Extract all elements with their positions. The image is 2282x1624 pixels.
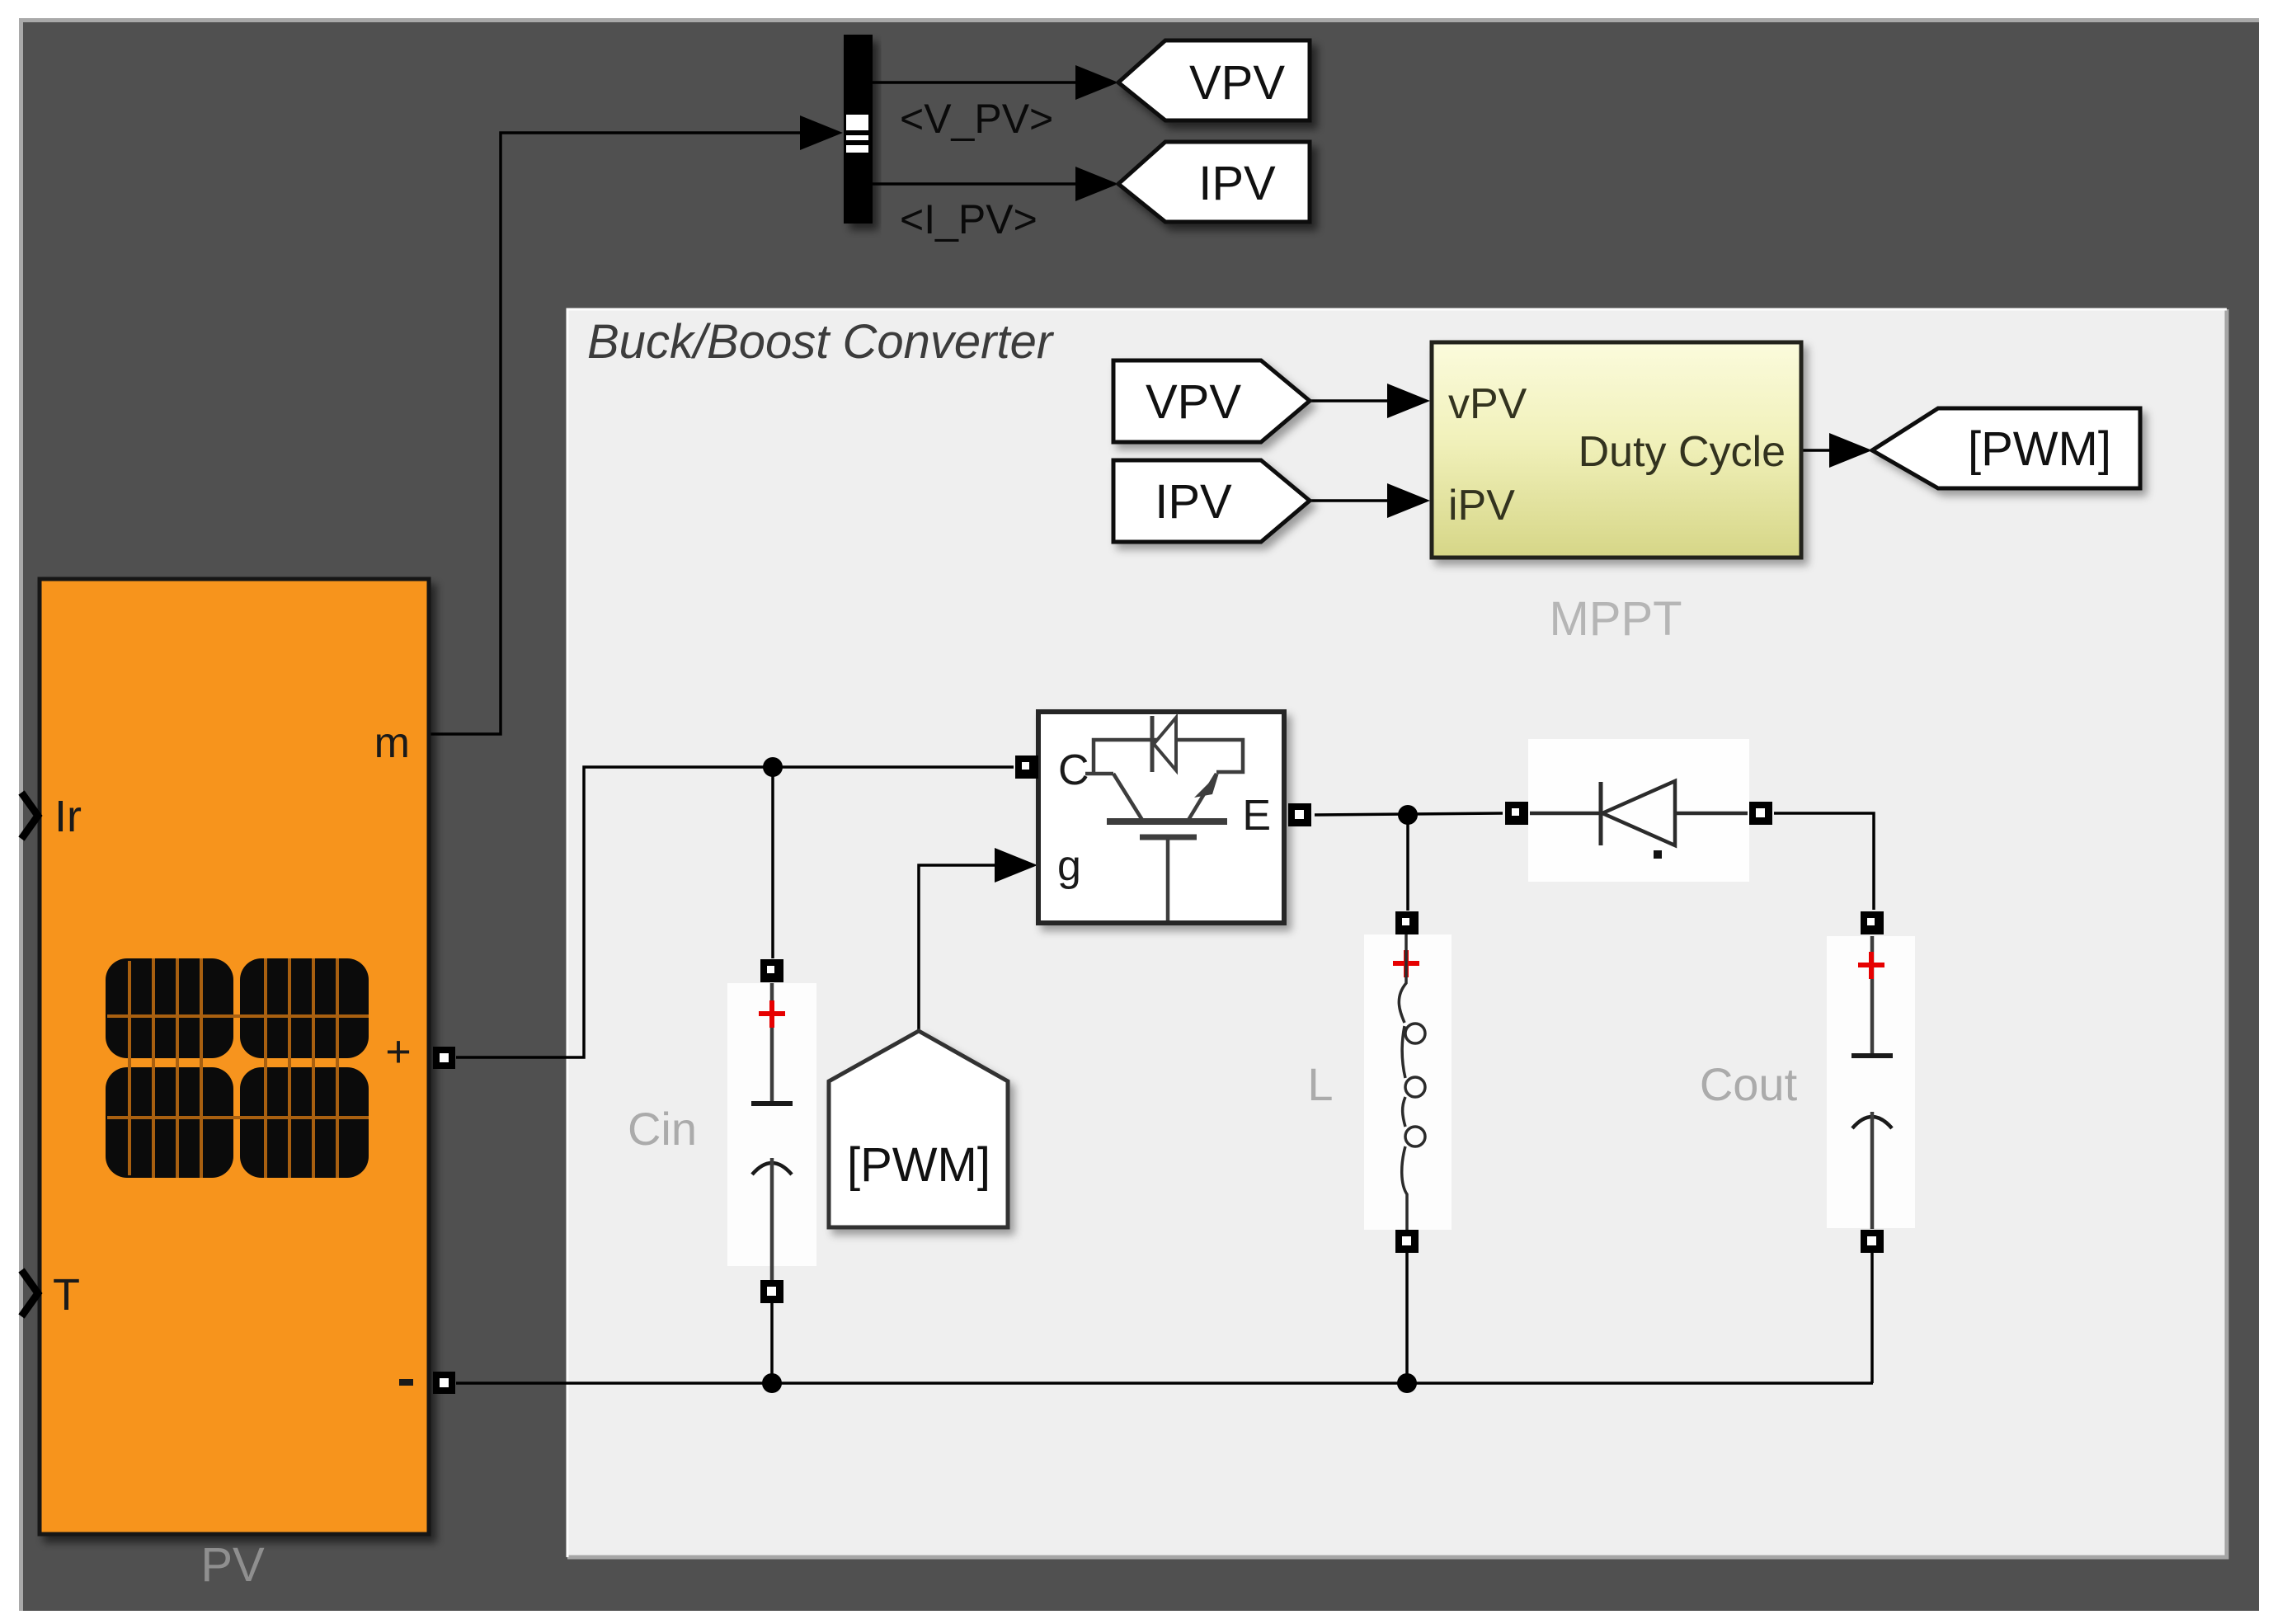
svg-text:Duty Cycle: Duty Cycle [1579, 428, 1786, 476]
svg-text:Ir: Ir [54, 792, 82, 841]
svg-text:[PWM]: [PWM] [1968, 422, 2111, 476]
svg-text:<V_PV>: <V_PV> [900, 96, 1053, 142]
svg-text:m: m [374, 719, 410, 767]
svg-text:<I_PV>: <I_PV> [900, 196, 1037, 242]
svg-text:E: E [1242, 792, 1271, 840]
svg-text:PV: PV [200, 1538, 265, 1592]
svg-text:L: L [1307, 1058, 1333, 1110]
svg-text:IPV: IPV [1155, 475, 1232, 529]
svg-text:+: + [385, 1027, 412, 1076]
svg-text:Cin: Cin [628, 1103, 697, 1155]
svg-text:Buck/Boost Converter: Buck/Boost Converter [587, 315, 1055, 369]
svg-text:[PWM]: [PWM] [847, 1138, 990, 1192]
svg-text:g: g [1057, 842, 1081, 890]
svg-text:Cout: Cout [1700, 1058, 1798, 1110]
svg-text:VPV: VPV [1189, 56, 1285, 110]
svg-text:vPV: vPV [1448, 380, 1527, 428]
svg-text:C: C [1058, 746, 1089, 794]
svg-text:T: T [53, 1270, 80, 1320]
svg-text:iPV: iPV [1448, 482, 1515, 530]
svg-text:MPPT: MPPT [1549, 592, 1682, 646]
svg-text:VPV: VPV [1146, 375, 1241, 429]
svg-text:IPV: IPV [1198, 157, 1276, 210]
